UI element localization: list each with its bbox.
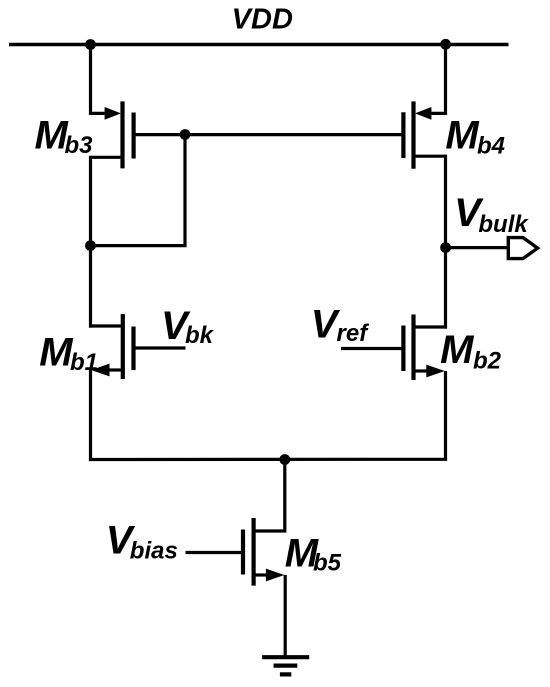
- wire: Mb5 gate lead: [186, 551, 244, 554]
- ground symbol bar 2: [274, 663, 298, 667]
- wire: right column Mb4 drain to Mb2 drain: [444, 155, 447, 329]
- wire: Mb5 source lead: [254, 573, 267, 576]
- wire: Mb2 gate lead: [341, 347, 403, 350]
- node Vbulk junction dot: [440, 242, 451, 253]
- label Vbias: [106, 519, 178, 565]
- transistor Mb3 gate bar: [132, 113, 136, 159]
- transistor Mb2 source arrow: [426, 365, 445, 378]
- label Vref: [311, 303, 369, 348]
- svg-text:b5: b5: [313, 549, 342, 576]
- transistor Mb4 source arrow: [415, 107, 431, 120]
- ground symbol bar 1: [262, 655, 309, 659]
- node VDD junction dot right: [440, 39, 451, 50]
- wire: VDD power rail: [9, 43, 509, 46]
- wire: left column Mb3 drain to Mb1 drain: [89, 156, 92, 328]
- node diode-connection dot on left column: [85, 240, 96, 251]
- wire: Mb1 gate lead: [134, 346, 186, 349]
- transistor Mb4 channel: [411, 101, 415, 168]
- wire: Mb1 drain lead: [89, 324, 123, 327]
- transistor Mb1 source arrow: [91, 364, 110, 377]
- wire: gate junction down: [91, 135, 186, 246]
- svg-text:ref: ref: [337, 320, 370, 347]
- wire: VDD down to Mb4 source lead: [430, 45, 446, 114]
- transistor Mb5 gate bar: [241, 530, 245, 575]
- node gate junction dot: [180, 129, 191, 140]
- svg-text:M: M: [445, 114, 480, 158]
- transistor Mb1 channel: [121, 314, 125, 379]
- wire: Mb2 drain lead: [414, 325, 448, 328]
- node VDD junction dot left: [85, 39, 96, 50]
- label Mb1: [39, 330, 98, 376]
- wire: VDD down to Mb3 source lead: [91, 45, 107, 114]
- svg-text:VDD: VDD: [232, 4, 293, 36]
- wire: Mb1 source down to bottom rail: [89, 370, 92, 460]
- transistor Mb3 channel: [120, 101, 124, 168]
- transistor Mb5 source arrow: [266, 569, 285, 582]
- svg-text:b2: b2: [473, 347, 502, 374]
- wire: Mb1 source lead: [108, 368, 123, 371]
- transistor Mb4 gate bar: [401, 112, 405, 158]
- wire: Mb2 source down to bottom rail: [444, 371, 447, 459]
- svg-text:bk: bk: [185, 322, 215, 349]
- ground symbol bar 3: [280, 672, 291, 676]
- wire: Mb2 source lead: [414, 369, 429, 372]
- wire: Mb3 drain lead: [91, 156, 123, 159]
- label Mb3: [35, 114, 94, 160]
- transistor Mb5 channel: [252, 518, 256, 586]
- wire: Vbulk output stub: [446, 246, 509, 249]
- output port Vbulk pointer: [508, 238, 537, 259]
- node tail junction dot: [279, 454, 290, 465]
- svg-text:M: M: [440, 328, 475, 372]
- svg-text:b3: b3: [65, 132, 94, 159]
- svg-text:bias: bias: [130, 537, 178, 564]
- svg-text:b1: b1: [70, 349, 98, 376]
- svg-text:b4: b4: [477, 133, 505, 160]
- wire: gate interconnect Mb3-Mb4: [134, 133, 404, 136]
- label Vbk: [161, 304, 215, 349]
- label Mb4: [445, 114, 505, 160]
- wire: tail down to Mb5 drain lead: [254, 460, 285, 532]
- transistor Mb1 gate bar: [131, 327, 135, 371]
- label Mb2: [440, 328, 502, 374]
- svg-text:bulk: bulk: [478, 211, 529, 238]
- label Mb5: [285, 532, 342, 577]
- wire: Mb5 source down to ground: [284, 575, 287, 657]
- transistor Mb2 gate bar: [401, 326, 405, 372]
- wire: Mb4 drain lead: [414, 155, 446, 158]
- transistor Mb3 source arrow: [105, 107, 121, 120]
- label Vbulk: [454, 191, 529, 238]
- wire: bottom rail: [89, 458, 447, 461]
- transistor Mb2 channel: [411, 315, 415, 381]
